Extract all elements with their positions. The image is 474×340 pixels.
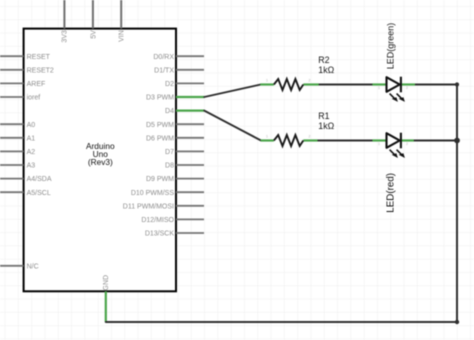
svg-text:ioref: ioref: [27, 95, 41, 102]
pin A0 stub: [0, 123, 24, 125]
svg-text:D11 PWM/MOSI: D11 PWM/MOSI: [123, 203, 174, 210]
node top-right corner: [455, 82, 459, 86]
pin D7 stub: [176, 150, 204, 152]
pin D8 stub: [176, 164, 204, 166]
svg-text:2: 2: [309, 135, 311, 139]
top pin labels (rotated): [62, 30, 126, 43]
svg-text:1kΩ: 1kΩ: [318, 65, 334, 75]
wire bottom horizontal to GND: [106, 321, 457, 323]
svg-text:A2: A2: [27, 149, 36, 156]
svg-text:D3 PWM: D3 PWM: [146, 95, 174, 102]
pin D1/TX stub: [176, 69, 204, 71]
pin A4/SDA stub: [0, 178, 24, 180]
node bottom-right corner: [455, 320, 459, 324]
pin RESET stub: [0, 55, 24, 57]
pin 3V3 stub: [63, 0, 65, 29]
svg-text:A1: A1: [27, 135, 36, 142]
pin D11 PWM/MOSI stub: [176, 205, 204, 207]
svg-text:LED(red): LED(red): [386, 173, 397, 213]
LED(green) arrows: [390, 94, 405, 102]
right pin stubs (grey): [176, 56, 204, 233]
svg-text:D10 PWM/SS: D10 PWM/SS: [131, 190, 175, 197]
pin D2 stub: [176, 82, 204, 84]
label R1 value: [318, 111, 334, 131]
pin D9 PWM stub: [176, 178, 204, 180]
pin GND stub (green, connected): [105, 291, 107, 322]
resistor R2 leads (green): [260, 83, 318, 85]
pin A2 stub: [0, 150, 24, 152]
svg-text:D0/RX: D0/RX: [153, 54, 174, 61]
LED(red) triangle: [387, 133, 400, 148]
svg-text:A4/SDA: A4/SDA: [27, 176, 52, 183]
LED(green) triangle: [387, 77, 400, 92]
LED(green) cathode bar: [400, 77, 402, 93]
pin D10 PWM/SS stub: [176, 191, 204, 193]
svg-text:1kΩ: 1kΩ: [318, 121, 334, 131]
pin D6 PWM stub: [176, 137, 204, 139]
pin ioref stub: [0, 96, 24, 98]
svg-text:A3: A3: [27, 163, 36, 170]
wire D3 to R2 (diagonal): [204, 85, 260, 98]
left pin labels: [27, 54, 54, 271]
resistor R2 zigzag: [274, 79, 303, 90]
svg-text:A5/SCL: A5/SCL: [27, 190, 51, 197]
wire R1 to LED(red): [318, 140, 373, 142]
svg-text:1: 1: [266, 79, 268, 83]
svg-text:GND: GND: [103, 275, 110, 291]
LED(green) pin numbers: [378, 86, 408, 90]
svg-text:N/C: N/C: [27, 263, 39, 270]
svg-text:RESET2: RESET2: [27, 67, 54, 74]
pin VIN stub: [120, 0, 122, 29]
pin D13/SCK stub: [176, 232, 204, 234]
svg-text:RESET: RESET: [27, 54, 51, 61]
pin A5/SCL stub: [0, 191, 24, 193]
svg-text:D4: D4: [165, 108, 174, 115]
svg-text:D1/TX: D1/TX: [154, 67, 174, 74]
left pin stubs: [0, 56, 24, 266]
pin D5 PWM stub: [176, 123, 204, 125]
LED(green) anode lead: [372, 83, 387, 85]
svg-text:(Rev3): (Rev3): [88, 157, 113, 167]
resistor R1 leads (green): [261, 139, 318, 141]
pin AREF stub: [0, 82, 24, 84]
svg-text:D9 PWM: D9 PWM: [146, 176, 174, 183]
svg-text:1: 1: [378, 86, 380, 90]
svg-text:AREF: AREF: [27, 81, 46, 88]
LED(green) cathode lead: [401, 83, 415, 85]
svg-text:D6 PWM: D6 PWM: [146, 135, 174, 142]
pin A1 stub: [0, 137, 24, 139]
svg-text:2: 2: [406, 86, 408, 90]
wire D4 to R1 (diagonal): [204, 111, 261, 141]
svg-text:R2: R2: [318, 55, 329, 65]
svg-text:D2: D2: [165, 81, 174, 88]
resistor R1 pin numbers: [266, 135, 311, 139]
svg-text:D13/SCK: D13/SCK: [145, 231, 175, 238]
svg-text:D8: D8: [165, 163, 174, 170]
resistor R1 zigzag: [274, 135, 303, 146]
label Arduino Uno (Rev3): [86, 141, 115, 167]
node junction at LED(red) row: [454, 138, 460, 144]
pin RESET2 stub: [0, 69, 24, 71]
label R2 value: [318, 55, 334, 75]
svg-text:3V3: 3V3: [62, 30, 69, 43]
svg-text:D5 PWM: D5 PWM: [146, 122, 174, 129]
LED(red) anode lead: [372, 139, 387, 141]
pin 5V stub: [92, 0, 94, 29]
svg-text:VIN: VIN: [119, 30, 126, 42]
pin D3 PWM stub (green, connected): [176, 96, 204, 98]
svg-text:2: 2: [406, 142, 408, 146]
svg-text:1: 1: [266, 135, 268, 139]
wire LED(green) to right rail: [415, 84, 457, 86]
pin D12/MISO stub: [176, 218, 204, 220]
svg-text:R1: R1: [318, 111, 329, 121]
LED(red) cathode lead: [401, 139, 414, 141]
pin A3 stub: [0, 164, 24, 166]
svg-text:5V: 5V: [90, 30, 97, 39]
resistor R2 pin numbers: [266, 79, 311, 83]
Arduino Uno U1 body: [24, 29, 176, 292]
LED(red) arrows: [390, 150, 405, 158]
top pin stubs: [64, 0, 121, 29]
right pin labels: [123, 54, 175, 238]
LED(red) pin numbers: [378, 142, 408, 146]
svg-text:D12/MISO: D12/MISO: [141, 217, 174, 224]
pin D4 stub (green, connected): [176, 109, 204, 111]
LED(red) cathode bar: [400, 133, 402, 149]
pin N/C stub: [0, 265, 24, 267]
pin D0/RX stub: [176, 55, 204, 57]
wire right rail vertical: [456, 85, 458, 323]
svg-text:LED(green): LED(green): [386, 23, 396, 70]
svg-text:1: 1: [378, 142, 380, 146]
wire LED(red) to right rail: [414, 140, 457, 142]
wire R2 to LED(green): [319, 84, 373, 86]
svg-text:2: 2: [309, 79, 311, 83]
svg-text:D7: D7: [165, 149, 174, 156]
svg-text:A0: A0: [27, 122, 36, 129]
